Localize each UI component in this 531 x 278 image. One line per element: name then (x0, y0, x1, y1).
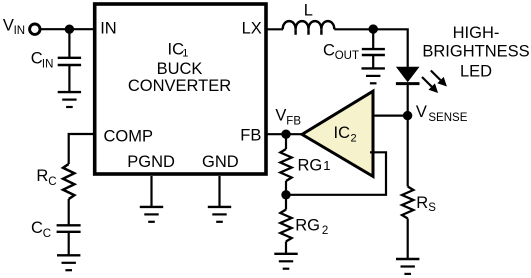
node VIN terminal (30, 24, 40, 34)
ground under CC (57, 255, 80, 270)
LED light arrow 1 (431, 71, 447, 87)
wire PGND pin to ground (150, 176, 152, 207)
svg-text:C: C (323, 41, 335, 59)
label VIN (3, 17, 25, 37)
wire VSENSE to IC2 top input (370, 114, 408, 116)
wire LED cathode down to RS (407, 84, 409, 187)
wire RG1 to junction (285, 181, 287, 195)
label RC (36, 167, 56, 188)
svg-text:V: V (3, 17, 14, 35)
inductor L (283, 21, 335, 35)
junction node RG1/RG2 (281, 190, 290, 199)
wire feedback junction to IC2 bottom input (286, 152, 386, 195)
svg-text:S: S (428, 202, 436, 214)
capacitor COUT (362, 49, 385, 55)
label CC (31, 219, 51, 240)
ground under RS (396, 259, 419, 274)
label IC2 (334, 124, 357, 145)
svg-text:2: 2 (322, 225, 328, 237)
svg-text:HIGH-: HIGH- (453, 24, 500, 42)
ground under PGND (140, 207, 163, 222)
resistor RG1 (280, 149, 291, 181)
svg-text:1: 1 (182, 47, 188, 59)
svg-text:BUCK: BUCK (157, 60, 203, 78)
svg-text:FB: FB (286, 115, 301, 127)
wire COMP to RC (69, 134, 94, 164)
ground under COUT (362, 68, 385, 83)
wire RC to CC (68, 199, 70, 225)
wire CC to ground (68, 232, 70, 256)
wire inductor to LED corner (334, 29, 407, 68)
wire LX to inductor (266, 28, 283, 30)
svg-text:1: 1 (323, 158, 330, 173)
ground under RG2 (274, 254, 297, 269)
LED light arrow 2 (422, 77, 438, 93)
wire COUT to ground (372, 55, 374, 68)
wire junction down to COUT (372, 29, 374, 49)
label HIGH-BRIGHTNESS LED (422, 24, 529, 80)
label RG1 (298, 156, 331, 174)
svg-text:PGND: PGND (127, 153, 175, 171)
svg-text:V: V (416, 103, 427, 121)
LED D1 high-brightness (396, 67, 420, 84)
label RG2 (295, 216, 328, 237)
wire RG2 to ground (285, 242, 287, 254)
label CIN (31, 50, 54, 71)
svg-text:OUT: OUT (335, 50, 359, 62)
svg-text:SENSE: SENSE (428, 112, 467, 124)
svg-text:2: 2 (351, 133, 357, 145)
svg-text:CONVERTER: CONVERTER (128, 77, 231, 95)
wire FB pin to VFB node to IC2 apex (266, 133, 303, 135)
junction node at COUT tap (369, 24, 378, 33)
label VSENSE (416, 103, 468, 124)
svg-text:LED: LED (460, 63, 492, 81)
resistor RS (402, 187, 413, 219)
svg-text:LX: LX (242, 20, 262, 38)
wire junction to RG2 (285, 195, 287, 210)
label RS (416, 194, 436, 214)
resistor RC (63, 164, 74, 199)
svg-text:IN: IN (42, 58, 54, 70)
wire CIN to ground (68, 65, 70, 92)
svg-text:FB: FB (240, 127, 261, 145)
svg-text:IN: IN (14, 25, 26, 37)
svg-text:GND: GND (202, 153, 239, 171)
op-amp IC2 (302, 91, 373, 176)
svg-text:L: L (304, 1, 313, 19)
capacitor CC (57, 225, 81, 232)
label COUT (323, 41, 359, 62)
svg-text:C: C (48, 176, 56, 188)
label VFB (275, 106, 301, 127)
svg-text:COMP: COMP (104, 127, 154, 145)
svg-text:V: V (275, 106, 286, 124)
wire RS to ground (407, 219, 409, 260)
junction node at CIN tap (65, 25, 74, 34)
wire junction down to CIN (68, 29, 70, 58)
svg-text:IN: IN (100, 20, 117, 38)
node VFB junction (281, 130, 290, 139)
resistor RG2 (280, 210, 291, 242)
ground under CIN (58, 92, 81, 107)
IC U1 box IC1 buck converter (95, 4, 266, 174)
svg-text:R: R (416, 194, 428, 212)
svg-text:C: C (31, 219, 43, 237)
svg-text:IC: IC (334, 124, 351, 142)
wire VFB down to RG1 (285, 134, 287, 149)
node VSENSE junction (403, 111, 412, 120)
wire GND pin to ground (218, 176, 220, 207)
svg-text:RG: RG (295, 216, 320, 234)
svg-text:C: C (43, 228, 51, 240)
ground under GND (208, 207, 231, 222)
wire VIN to IN pin (40, 28, 94, 30)
svg-text:R: R (36, 167, 48, 185)
capacitor CIN (58, 58, 81, 65)
svg-text:BRIGHTNESS: BRIGHTNESS (422, 43, 529, 61)
svg-text:RG: RG (298, 156, 323, 174)
label IC1 (168, 41, 189, 60)
